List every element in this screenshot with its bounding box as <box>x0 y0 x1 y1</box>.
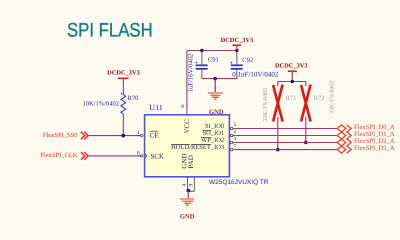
wire R70 bottom to SS0 net <box>122 121 124 136</box>
svg-text:PAD: PAD <box>187 155 195 168</box>
wire top rail VCC <box>187 50 237 52</box>
wire pullup rail <box>278 81 306 83</box>
pin 1 CE (active low) <box>137 130 159 139</box>
resistor R71 (DNP, X mark) <box>263 85 296 150</box>
junction R71 on D3 wire <box>276 148 280 152</box>
wire FlexSPI_D2_A <box>236 142 338 144</box>
offsheet connector D3 <box>337 146 351 154</box>
svg-text:R72: R72 <box>314 95 325 102</box>
power port DCDC_3V3 (above R70) <box>107 69 140 81</box>
junction R72 on D2 wire <box>304 141 308 145</box>
wire VCC pin 8 to caps rail <box>186 51 188 108</box>
wire rail to R72 top <box>305 82 307 87</box>
pin 3 WP_IO2 name <box>201 137 224 144</box>
pin 5 stub <box>230 122 236 130</box>
svg-text:FlexSPI_D3_A: FlexSPI_D3_A <box>354 145 395 152</box>
wire FlexSPI_D1_A <box>236 135 338 137</box>
svg-text:C92: C92 <box>242 57 253 64</box>
junction caps ground tap <box>214 77 217 80</box>
svg-text:5: 5 <box>234 122 237 128</box>
resistor R70 <box>83 81 139 120</box>
pin 2 stub <box>230 129 236 137</box>
svg-text:4: 4 <box>181 184 187 187</box>
svg-text:1: 1 <box>137 130 140 136</box>
svg-text:SO_IO1: SO_IO1 <box>203 130 225 137</box>
junction C91 top <box>200 49 203 52</box>
svg-text:0.1uF/10V/0402: 0.1uF/10V/0402 <box>232 70 279 78</box>
svg-text:R70: R70 <box>128 95 139 102</box>
pin 3 stub <box>230 136 236 144</box>
svg-text:GND: GND <box>180 213 195 220</box>
svg-text:CE: CE <box>150 131 159 139</box>
junction pullup rail <box>291 80 294 83</box>
svg-text:W25Q16JVUXIQ TR: W25Q16JVUXIQ TR <box>209 179 269 186</box>
svg-text:SCK: SCK <box>151 152 165 160</box>
wire pad elbow pin9 to pin4 <box>188 190 194 192</box>
svg-text:FlexSPI_CLK: FlexSPI_CLK <box>40 152 78 159</box>
svg-text:3: 3 <box>234 136 237 142</box>
pin 4 GND stub <box>187 177 189 190</box>
port FlexSPI_SS0 <box>43 132 88 140</box>
power port DCDC_3V3 (pullups) <box>275 63 308 82</box>
wire rail to R71 top <box>277 82 279 87</box>
wire FlexSPI_D0_A <box>236 128 338 130</box>
svg-text:C91: C91 <box>208 57 219 64</box>
resistor R72 (DNP, X mark) <box>301 80 335 142</box>
junction R70/SS0 <box>122 134 126 138</box>
capacitor C91 <box>195 51 218 79</box>
svg-text:33K/1%/0402: 33K/1%/0402 <box>329 80 335 114</box>
svg-text:SPI FLASH: SPI FLASH <box>67 19 153 41</box>
ground symbol below chip <box>180 191 194 206</box>
svg-text:9: 9 <box>188 184 194 187</box>
svg-text:GND: GND <box>209 109 224 116</box>
svg-text:U11: U11 <box>149 103 162 112</box>
wire FlexSPI_D3_A <box>236 149 338 151</box>
svg-text:R71: R71 <box>286 95 297 102</box>
ground symbol at caps <box>208 79 223 100</box>
svg-text:1uF/16V/0402: 1uF/16V/0402 <box>188 54 195 92</box>
capacitor C92 <box>230 51 278 79</box>
svg-text:8: 8 <box>181 104 184 110</box>
svg-text:FlexSPI_D1_A: FlexSPI_D1_A <box>354 131 395 138</box>
wire bottom rail caps <box>202 78 237 80</box>
port FlexSPI_CLK <box>40 152 88 160</box>
svg-text:FlexSPI_D2_A: FlexSPI_D2_A <box>354 138 395 145</box>
junction C92/power top <box>235 49 238 52</box>
power port DCDC_3V3 (caps) <box>221 37 254 51</box>
offsheet connector D1 <box>337 132 351 140</box>
pin 8 VCC <box>181 104 191 134</box>
svg-text:SI_IO0: SI_IO0 <box>205 123 224 130</box>
offsheet connector D2 <box>337 139 351 147</box>
pin 9 PAD stub <box>193 177 195 192</box>
svg-text:DCDC_3V3: DCDC_3V3 <box>107 69 140 76</box>
svg-text:7: 7 <box>234 143 237 149</box>
svg-text:DCDC_3V3: DCDC_3V3 <box>221 37 254 44</box>
pin 6 SCK (clock) <box>137 150 164 160</box>
pin 7 HOLD/RESET_IO3 name <box>171 144 224 151</box>
chip U11 body <box>145 115 230 177</box>
wire FlexSPI_SS0 to pin 1 <box>89 135 141 137</box>
offsheet connector D0 <box>337 125 351 133</box>
svg-text:HOLD/RESET_IO3: HOLD/RESET_IO3 <box>171 144 224 151</box>
pin 2 SO_IO1 name <box>203 130 225 137</box>
wire FlexSPI_CLK to pin 6 <box>89 155 141 157</box>
junction pins 4/9 <box>187 189 191 193</box>
pin 7 stub <box>230 143 236 151</box>
svg-text:2: 2 <box>234 129 237 135</box>
svg-text:VCC: VCC <box>183 119 191 134</box>
svg-text:FlexSPI_SS0: FlexSPI_SS0 <box>43 132 78 139</box>
svg-text:6: 6 <box>137 150 140 156</box>
svg-text:WP_IO2: WP_IO2 <box>201 137 224 144</box>
svg-text:33K/1%/0402: 33K/1%/0402 <box>263 88 269 122</box>
svg-text:10K/1%/0402: 10K/1%/0402 <box>83 101 119 108</box>
svg-text:DCDC_3V3: DCDC_3V3 <box>275 63 308 70</box>
